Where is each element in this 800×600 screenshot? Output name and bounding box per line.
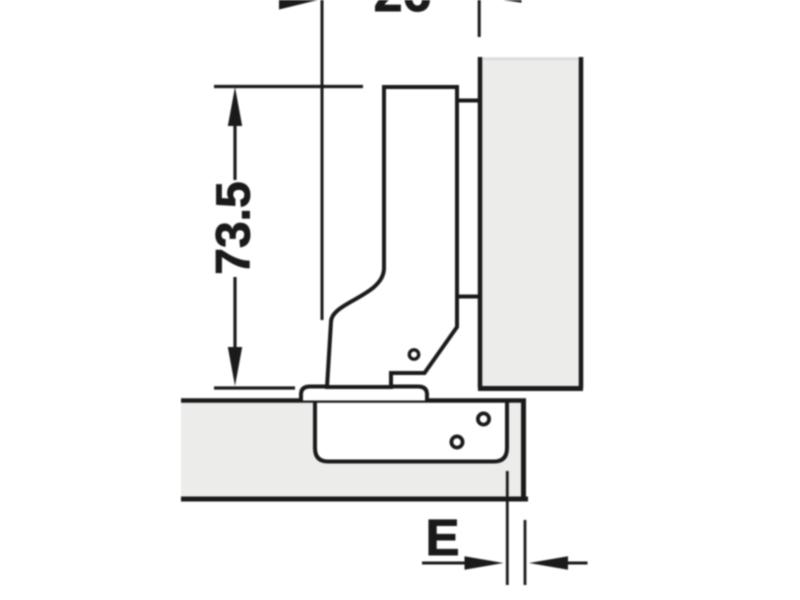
svg-text:26: 26 (374, 0, 432, 23)
svg-text:E: E (426, 509, 460, 566)
svg-text:73.5: 73.5 (208, 181, 261, 274)
